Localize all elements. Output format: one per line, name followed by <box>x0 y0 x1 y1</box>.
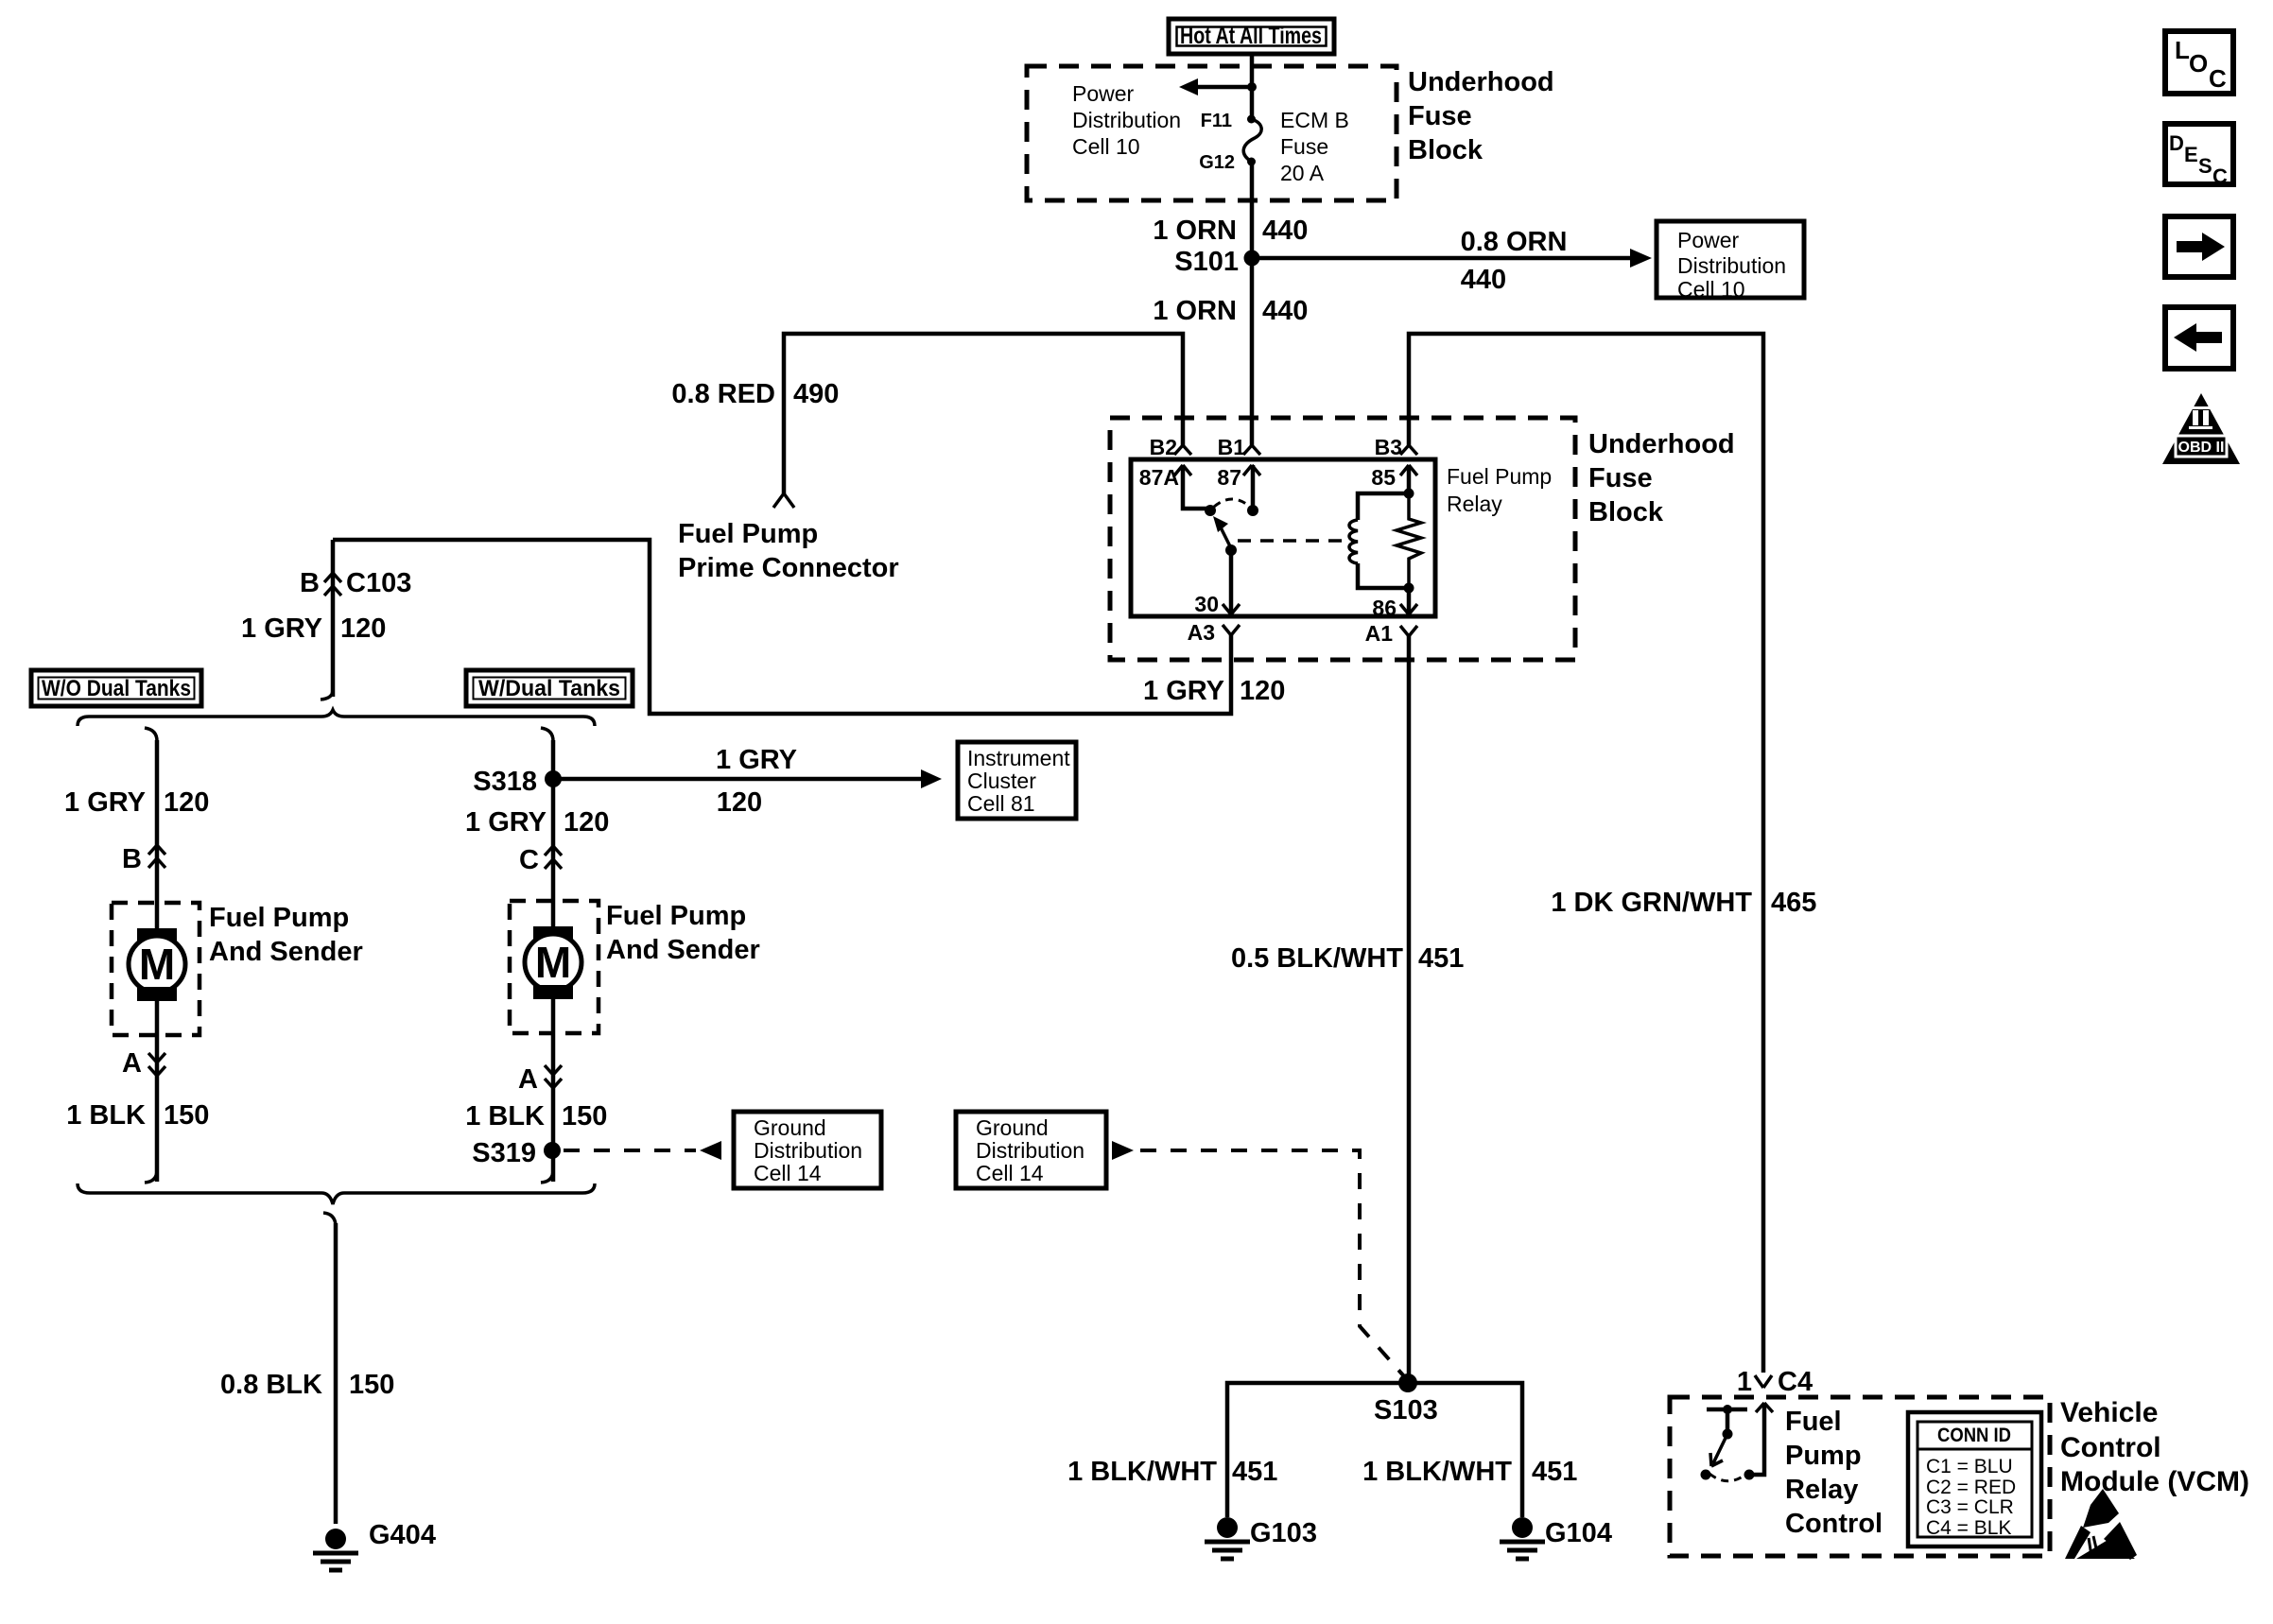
wire 0.8 ORN 440 to Power Distribution <box>1252 227 1652 295</box>
pin 85 arrow and wire <box>1371 465 1417 493</box>
fuse ECM B 20A symbol <box>1243 115 1261 166</box>
svg-text:C4: C4 <box>1778 1367 1813 1397</box>
node S319 <box>472 1138 561 1168</box>
label 1 DK GRN/WHT 465 <box>1551 888 1816 918</box>
pin 87 arrow and wire <box>1217 465 1260 508</box>
svg-text:Prime Connector: Prime Connector <box>678 553 899 583</box>
svg-text:Module (VCM): Module (VCM) <box>2060 1466 2249 1497</box>
svg-text:B1: B1 <box>1218 435 1246 459</box>
svg-text:Cell 81: Cell 81 <box>967 791 1035 816</box>
label 1 BLK 150 (right branch) <box>465 1101 607 1132</box>
svg-text:Fuel: Fuel <box>1785 1407 1842 1437</box>
box Ground Distribution Cell 14 (left) <box>734 1112 881 1188</box>
svg-text:Distribution: Distribution <box>976 1138 1084 1163</box>
svg-text:440: 440 <box>1461 265 1506 295</box>
svg-text:465: 465 <box>1771 888 1816 918</box>
connector C4 pin 1 <box>1737 1367 1813 1397</box>
svg-text:S103: S103 <box>1374 1395 1438 1425</box>
svg-text:S319: S319 <box>472 1138 536 1168</box>
svg-text:Distribution: Distribution <box>1677 253 1786 278</box>
svg-text:Block: Block <box>1408 135 1484 165</box>
vehicle control module dashed box <box>1670 1397 2050 1556</box>
wire battery feed into fuse block <box>1250 54 1255 119</box>
svg-text:0.8 ORN: 0.8 ORN <box>1461 227 1568 257</box>
svg-text:Relay: Relay <box>1785 1475 1858 1505</box>
svg-text:1 BLK/WHT: 1 BLK/WHT <box>1067 1457 1217 1487</box>
underhood fuse block (relay) dashed box <box>1110 418 1575 660</box>
connector B (left pump) <box>122 844 165 874</box>
svg-text:87A: 87A <box>1139 465 1179 490</box>
wire left branch from brace <box>145 728 157 928</box>
svg-text:C: C <box>2212 164 2228 188</box>
svg-text:Fuel Pump: Fuel Pump <box>1447 464 1552 489</box>
label 1 ORN 440 (lower) <box>1153 296 1308 326</box>
svg-text:490: 490 <box>793 379 839 409</box>
ground G104 <box>1500 1517 1612 1559</box>
svg-text:Control: Control <box>2060 1432 2161 1463</box>
node S318 <box>473 767 562 797</box>
svg-text:120: 120 <box>1240 676 1285 706</box>
svg-text:G12: G12 <box>1199 152 1235 173</box>
relay coil node top <box>1404 489 1414 499</box>
svg-text:F11: F11 <box>1201 111 1232 131</box>
svg-text:120: 120 <box>564 807 609 838</box>
pin B3 <box>1375 435 1417 459</box>
svg-text:87: 87 <box>1217 465 1241 490</box>
svg-text:G104: G104 <box>1545 1518 1612 1548</box>
pin G12 label <box>1199 152 1235 173</box>
wire right branch from brace <box>541 728 553 926</box>
ESD sensitivity symbol <box>2065 1489 2137 1560</box>
svg-text:C: C <box>519 845 539 875</box>
svg-text:150: 150 <box>562 1101 607 1132</box>
fuel pump and sender (right) dashed box <box>510 901 599 1033</box>
wire 1 GRY 120 A3 to C103 <box>333 540 1231 714</box>
label 1 GRY 120 (right branch) <box>465 807 609 838</box>
svg-text:Fuel Pump: Fuel Pump <box>209 903 349 933</box>
svg-text:Ground: Ground <box>976 1115 1049 1140</box>
svg-text:B2: B2 <box>1150 435 1177 459</box>
relay 87 contact node <box>1247 505 1258 516</box>
VCM fuel pump relay control driver <box>1701 1403 1774 1481</box>
svg-text:1: 1 <box>1737 1367 1752 1397</box>
wire arrow to Power Distribution Cell 10 <box>1179 78 1252 95</box>
svg-text:1 BLK: 1 BLK <box>66 1100 146 1131</box>
svg-text:1 GRY: 1 GRY <box>1143 676 1224 706</box>
relay switch dashed alternate position arc <box>1214 499 1250 507</box>
svg-text:M: M <box>139 940 175 989</box>
connector Fuel Pump Prime Connector <box>678 493 899 583</box>
wire 1 GRY 120 arrow to Instrument Cluster <box>553 745 942 818</box>
svg-text:O: O <box>2189 49 2208 78</box>
icon arrow left <box>2165 307 2233 369</box>
svg-text:W/O Dual Tanks: W/O Dual Tanks <box>42 676 191 701</box>
svg-text:S318: S318 <box>473 767 537 797</box>
svg-text:451: 451 <box>1418 943 1464 974</box>
svg-text:Hot At All Times: Hot At All Times <box>1180 23 1322 49</box>
pin 86 arrow and wire <box>1372 588 1417 620</box>
connector C103 pin B <box>300 540 411 700</box>
tag Hot At All Times <box>1169 19 1334 54</box>
svg-text:85: 85 <box>1371 465 1396 490</box>
svg-text:30: 30 <box>1194 592 1219 616</box>
svg-text:Cell 10: Cell 10 <box>1677 277 1745 302</box>
svg-text:1 GRY: 1 GRY <box>64 787 146 818</box>
svg-text:C3 = CLR: C3 = CLR <box>1926 1496 2014 1518</box>
wire 0.5 BLK/WHT 451 A1 to S103 <box>1231 636 1464 1383</box>
label Underhood Fuse Block (relay) <box>1588 429 1735 527</box>
fuel pump relay box <box>1131 459 1435 616</box>
wire 1 ORN 440 S101 to relay B1 <box>1250 258 1255 445</box>
svg-text:1 DK GRN/WHT: 1 DK GRN/WHT <box>1551 888 1752 918</box>
connector C (right pump) <box>519 845 562 875</box>
svg-text:C103: C103 <box>346 568 411 598</box>
pin A3 <box>1188 620 1240 645</box>
svg-text:A3: A3 <box>1188 620 1215 645</box>
svg-text:440: 440 <box>1262 296 1308 326</box>
relay resistor <box>1397 493 1421 588</box>
icon DESC <box>2165 124 2233 188</box>
svg-text:120: 120 <box>717 787 762 818</box>
svg-text:Pump: Pump <box>1785 1441 1862 1471</box>
pin 87A arrow and wire <box>1139 465 1206 509</box>
pin B1 <box>1218 435 1260 459</box>
svg-text:Control: Control <box>1785 1509 1883 1539</box>
dashed reference wire S319 to Ground Distribution <box>564 1141 721 1160</box>
svg-text:Underhood: Underhood <box>1588 429 1735 459</box>
svg-text:D: D <box>2169 131 2184 155</box>
label 1 BLK 150 (left branch) <box>66 1100 209 1131</box>
svg-text:440: 440 <box>1262 216 1308 246</box>
relay coil <box>1349 493 1409 588</box>
svg-text:0.8 BLK: 0.8 BLK <box>220 1370 322 1400</box>
svg-text:Cluster: Cluster <box>967 769 1036 793</box>
svg-text:120: 120 <box>340 613 386 644</box>
svg-text:L: L <box>2175 36 2190 64</box>
label 1 BLK/WHT 451 (right) <box>1362 1457 1577 1487</box>
ground G103 <box>1205 1517 1317 1559</box>
svg-text:Fuel Pump: Fuel Pump <box>678 519 818 549</box>
option tag W/Dual Tanks <box>466 670 633 706</box>
wire S103 to grounds <box>1227 1383 1522 1517</box>
svg-text:Fuse: Fuse <box>1280 134 1328 159</box>
svg-text:Fuel Pump: Fuel Pump <box>606 901 746 931</box>
svg-text:M: M <box>535 938 571 987</box>
label Fuel Pump Relay <box>1447 464 1552 516</box>
svg-text:451: 451 <box>1232 1457 1277 1487</box>
icon OBD II triangle <box>2162 393 2240 464</box>
svg-text:451: 451 <box>1532 1457 1577 1487</box>
label Underhood Fuse Block (top) <box>1408 67 1554 165</box>
svg-text:Block: Block <box>1588 497 1664 527</box>
svg-text:Distribution: Distribution <box>754 1138 862 1163</box>
svg-text:Cell 14: Cell 14 <box>976 1161 1044 1185</box>
svg-text:C: C <box>2209 64 2227 93</box>
svg-text:CONN ID: CONN ID <box>1937 1425 2011 1446</box>
svg-text:G404: G404 <box>369 1520 436 1550</box>
label 0.8 RED 490 <box>671 379 839 409</box>
svg-text:Relay: Relay <box>1447 492 1502 516</box>
underhood fuse block (top) dashed box <box>1027 66 1397 200</box>
svg-text:Cell 14: Cell 14 <box>754 1161 822 1185</box>
node S103 <box>1374 1373 1438 1425</box>
label 1 BLK/WHT 451 (left) <box>1067 1457 1277 1487</box>
ground G404 <box>313 1520 436 1570</box>
svg-text:86: 86 <box>1372 596 1397 620</box>
wire 1 ORN 440 fuse to S101 <box>1250 162 1255 258</box>
pin F11 label <box>1201 111 1232 131</box>
svg-text:OBD II: OBD II <box>2178 440 2225 456</box>
connector A (right pump) <box>518 999 562 1182</box>
label 1 ORN 440 (upper) <box>1153 216 1308 246</box>
svg-text:1 BLK/WHT: 1 BLK/WHT <box>1362 1457 1512 1487</box>
svg-text:1 BLK: 1 BLK <box>465 1101 545 1132</box>
svg-text:ECM B: ECM B <box>1280 108 1349 132</box>
label 1 GRY 120 (left branch) <box>64 787 209 818</box>
svg-text:C4 = BLK: C4 = BLK <box>1926 1517 2011 1539</box>
svg-text:B: B <box>300 568 320 598</box>
svg-text:1 ORN: 1 ORN <box>1153 296 1237 326</box>
relay coil node bottom <box>1404 583 1414 594</box>
box Power Distribution Cell 10 <box>1657 221 1804 302</box>
label Fuel Pump And Sender (left) <box>209 903 363 967</box>
node junction to Power Distribution arrow <box>1247 82 1257 92</box>
svg-text:G103: G103 <box>1250 1518 1317 1548</box>
svg-text:1 GRY: 1 GRY <box>241 613 322 644</box>
svg-text:Cell 10: Cell 10 <box>1072 134 1140 159</box>
brace split (top) <box>78 710 595 726</box>
icon arrow right <box>2165 216 2233 277</box>
pin 30 arrow and wire <box>1194 552 1240 616</box>
svg-text:A: A <box>122 1048 142 1079</box>
svg-text:C2 = RED: C2 = RED <box>1926 1477 2016 1498</box>
svg-text:120: 120 <box>164 787 209 818</box>
label 1 GRY 120 (C103 wire) <box>241 613 386 644</box>
svg-text:Power: Power <box>1072 81 1135 106</box>
svg-text:C1 = BLU: C1 = BLU <box>1926 1456 2013 1477</box>
relay dashed actuation link <box>1238 539 1352 543</box>
motor M (left pump) <box>129 928 185 1001</box>
svg-text:And Sender: And Sender <box>209 937 363 967</box>
label Power Distribution Cell 10 (in fuse block) <box>1072 81 1181 159</box>
svg-text:E: E <box>2184 143 2198 166</box>
label Fuel Pump Relay Control <box>1785 1407 1883 1539</box>
svg-text:Fuse: Fuse <box>1408 101 1472 131</box>
box Ground Distribution Cell 14 (right) <box>956 1112 1106 1188</box>
label Vehicle Control Module (VCM) <box>2060 1397 2249 1497</box>
brace join (bottom) <box>78 1170 595 1204</box>
svg-text:Underhood: Underhood <box>1408 67 1554 97</box>
svg-text:Power: Power <box>1677 228 1740 252</box>
pin A1 <box>1365 621 1417 646</box>
svg-text:150: 150 <box>164 1100 209 1131</box>
svg-text:1 GRY: 1 GRY <box>465 807 547 838</box>
svg-text:1 GRY: 1 GRY <box>716 745 797 775</box>
motor M (right pump) <box>525 926 581 999</box>
svg-text:Fuse: Fuse <box>1588 463 1653 493</box>
CONN ID table <box>1908 1412 2041 1546</box>
relay switch arm <box>1213 516 1237 556</box>
svg-text:Distribution: Distribution <box>1072 108 1181 132</box>
svg-text:B3: B3 <box>1375 435 1402 459</box>
svg-text:150: 150 <box>349 1370 394 1400</box>
svg-text:Instrument: Instrument <box>967 746 1070 770</box>
option tag W/O Dual Tanks <box>31 670 201 706</box>
node S101 <box>1174 247 1259 277</box>
connector A (left pump) <box>122 1001 165 1182</box>
wire 0.8 RED 490 prime connector branch <box>784 334 1183 493</box>
svg-text:1 ORN: 1 ORN <box>1153 216 1237 246</box>
dashed reference wire Ground Distribution to S103 <box>1112 1141 1404 1376</box>
svg-text:20 A: 20 A <box>1280 161 1325 185</box>
pin B2 <box>1150 435 1191 459</box>
svg-text:S101: S101 <box>1174 247 1239 277</box>
svg-text:W/Dual Tanks: W/Dual Tanks <box>478 676 620 701</box>
svg-text:A1: A1 <box>1365 621 1394 646</box>
label ECM B Fuse 20 A <box>1280 108 1349 185</box>
box Instrument Cluster Cell 81 <box>958 742 1076 819</box>
relay switch common contact node <box>1205 505 1216 516</box>
label Fuel Pump And Sender (right) <box>606 901 760 965</box>
svg-text:0.5 BLK/WHT: 0.5 BLK/WHT <box>1231 943 1403 974</box>
svg-text:B: B <box>122 844 142 874</box>
svg-text:A: A <box>518 1064 538 1095</box>
wire 1 DK GRN/WHT 465 B3 to VCM C4 <box>1409 334 1763 1373</box>
svg-text:Vehicle: Vehicle <box>2060 1397 2158 1428</box>
svg-text:0.8 RED: 0.8 RED <box>671 379 775 409</box>
svg-text:Ground: Ground <box>754 1115 826 1140</box>
wire 0.8 BLK 150 to G404 <box>220 1213 394 1524</box>
svg-text:And Sender: And Sender <box>606 935 760 965</box>
icon LOC <box>2165 31 2233 94</box>
fuel pump and sender (left) dashed box <box>112 903 200 1035</box>
label 1 GRY 120 (A3 wire) <box>1143 676 1285 706</box>
svg-text:S: S <box>2198 154 2212 178</box>
